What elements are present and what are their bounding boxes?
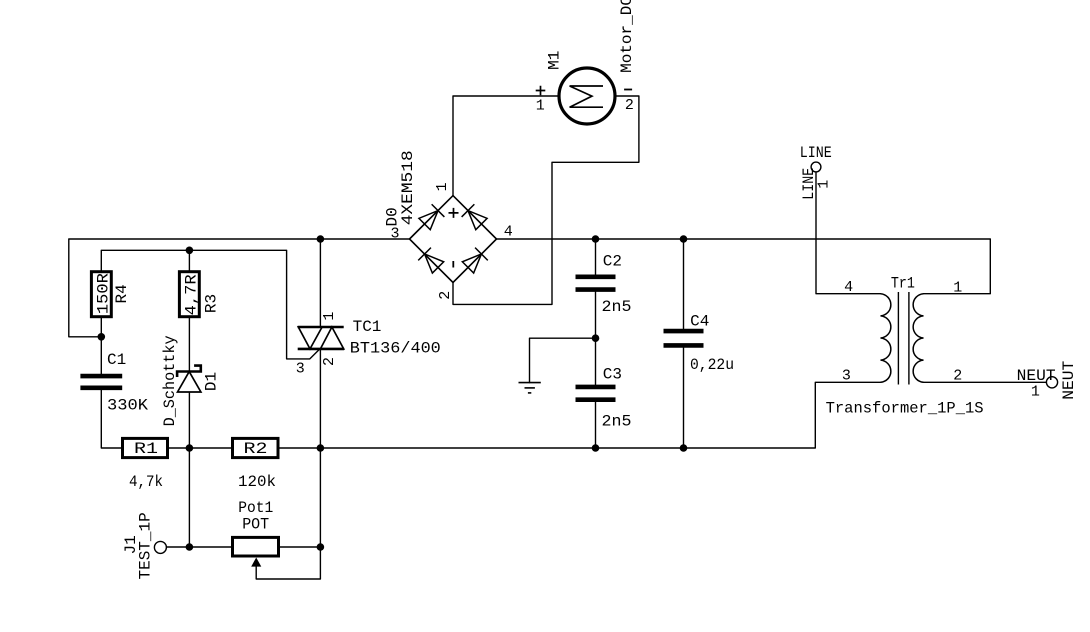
connector NEUT [1017, 361, 1079, 401]
svg-text:2: 2 [321, 357, 338, 366]
wire triac top stub [319, 239, 321, 326]
wire R4 to C1 [100, 317, 102, 374]
svg-text:1: 1 [321, 312, 338, 321]
svg-text:1: 1 [536, 98, 545, 115]
svg-text:POT: POT [242, 515, 269, 533]
wire pot right [279, 546, 321, 548]
resistor R4 [91, 272, 130, 317]
node C2C3 mid junction [592, 334, 600, 342]
wire ground to C2C3 mid [530, 338, 596, 382]
svg-text:330K: 330K [107, 397, 148, 415]
wire R1 to R2 [168, 447, 233, 449]
svg-text:D1: D1 [203, 372, 221, 391]
svg-text:1: 1 [953, 280, 962, 297]
wire top bus left [69, 239, 410, 337]
node pot right junction [317, 543, 325, 551]
wire gate line [101, 250, 320, 359]
node C3 lower bus junction [592, 444, 600, 452]
wire C4 column [683, 239, 685, 448]
motor M1 [536, 0, 636, 124]
node C2 top bus junction [592, 235, 600, 243]
svg-text:R2: R2 [244, 440, 268, 458]
wire top bus right [497, 239, 991, 294]
capacitor C4 [664, 313, 735, 375]
svg-text:1: 1 [816, 180, 833, 189]
ground [519, 383, 541, 393]
wire C2 column [595, 239, 597, 448]
connector J1 TEST_1P [122, 512, 166, 579]
wire transformer pin2 to NEUT [924, 381, 1047, 383]
svg-text:C1: C1 [107, 351, 126, 369]
svg-text:3: 3 [390, 225, 399, 242]
bridge rectifier D0 [384, 150, 513, 300]
svg-text:R1: R1 [134, 440, 158, 458]
diode bottom-right of bridge [462, 248, 488, 274]
svg-text:D_Schottky: D_Schottky [161, 335, 179, 426]
svg-text:Motor_DC: Motor_DC [618, 0, 636, 73]
svg-text:150R: 150R [94, 273, 112, 314]
wire J1 to pot [166, 546, 232, 548]
wire LINE to transformer pin4 [816, 172, 881, 294]
capacitor C3 [576, 365, 632, 430]
svg-text:4: 4 [844, 279, 853, 296]
svg-text:C4: C4 [690, 313, 709, 331]
transformer Tr1 [826, 274, 984, 417]
wire motor loop [453, 96, 639, 304]
capacitor C1 [80, 351, 148, 415]
svg-text:0,22u: 0,22u [690, 356, 734, 374]
svg-text:1: 1 [1031, 384, 1040, 401]
triac TC1 [296, 312, 441, 378]
svg-text:3: 3 [842, 367, 851, 384]
capacitor C2 [576, 253, 632, 317]
node J1 pot row junction [186, 543, 194, 551]
node triac lower bus junction [317, 444, 325, 452]
node triac top bus junction [317, 235, 325, 243]
resistor R1 [123, 438, 168, 491]
svg-text:4,7k: 4,7k [129, 473, 163, 491]
svg-text:LINE: LINE [800, 144, 832, 162]
core [898, 292, 909, 385]
svg-text:1: 1 [434, 182, 451, 191]
potentiometer Pot1 [233, 499, 279, 567]
node C4 top bus junction [680, 235, 688, 243]
diode top-left of bridge [418, 204, 444, 230]
wire pot wiper loop [256, 547, 320, 579]
secondary winding [913, 294, 923, 383]
connector LINE [800, 144, 833, 200]
svg-text:TC1: TC1 [353, 318, 382, 336]
svg-text:3: 3 [296, 361, 305, 378]
svg-text:2: 2 [953, 367, 962, 384]
svg-text:2: 2 [625, 97, 634, 114]
node C4 lower bus junction [680, 444, 688, 452]
svg-text:4: 4 [504, 224, 513, 241]
wire R3 top stub [188, 250, 190, 271]
svg-text:Transformer_1P_1S: Transformer_1P_1S [826, 399, 984, 417]
wire triac bottom to pot row [319, 349, 321, 547]
svg-text:R3: R3 [203, 294, 221, 313]
diode top-right of bridge [462, 204, 488, 230]
svg-text:BT136/400: BT136/400 [350, 340, 441, 358]
wire R2 to transformer pin3 [278, 382, 881, 448]
node C1 top junction [98, 333, 106, 341]
diode bottom-left of bridge [418, 248, 444, 274]
wire C1 to R1 [101, 390, 122, 448]
wire R3 to D1 [188, 317, 190, 372]
svg-text:120k: 120k [238, 473, 276, 491]
svg-text:2n5: 2n5 [602, 298, 632, 316]
diode D1 [161, 335, 221, 426]
svg-text:TEST_1P: TEST_1P [137, 512, 155, 579]
resistor R2 [233, 438, 279, 491]
svg-text:2n5: 2n5 [602, 413, 632, 431]
svg-text:C3: C3 [603, 365, 622, 383]
svg-text:NEUT: NEUT [1017, 367, 1056, 385]
svg-text:C2: C2 [603, 253, 622, 271]
resistor R3 [179, 272, 220, 317]
primary winding [881, 294, 891, 383]
svg-text:4,7R: 4,7R [182, 274, 200, 315]
node D1 lower bus junction [186, 444, 194, 452]
svg-text:NEUT: NEUT [1060, 361, 1078, 400]
node R3 top junction [186, 247, 194, 255]
svg-text:4XEM518: 4XEM518 [399, 150, 417, 225]
svg-text:Tr1: Tr1 [891, 274, 915, 292]
svg-text:2: 2 [437, 291, 454, 300]
svg-text:R4: R4 [113, 284, 131, 303]
svg-text:M1: M1 [545, 51, 563, 70]
wire D1 down to pot row [188, 392, 190, 547]
